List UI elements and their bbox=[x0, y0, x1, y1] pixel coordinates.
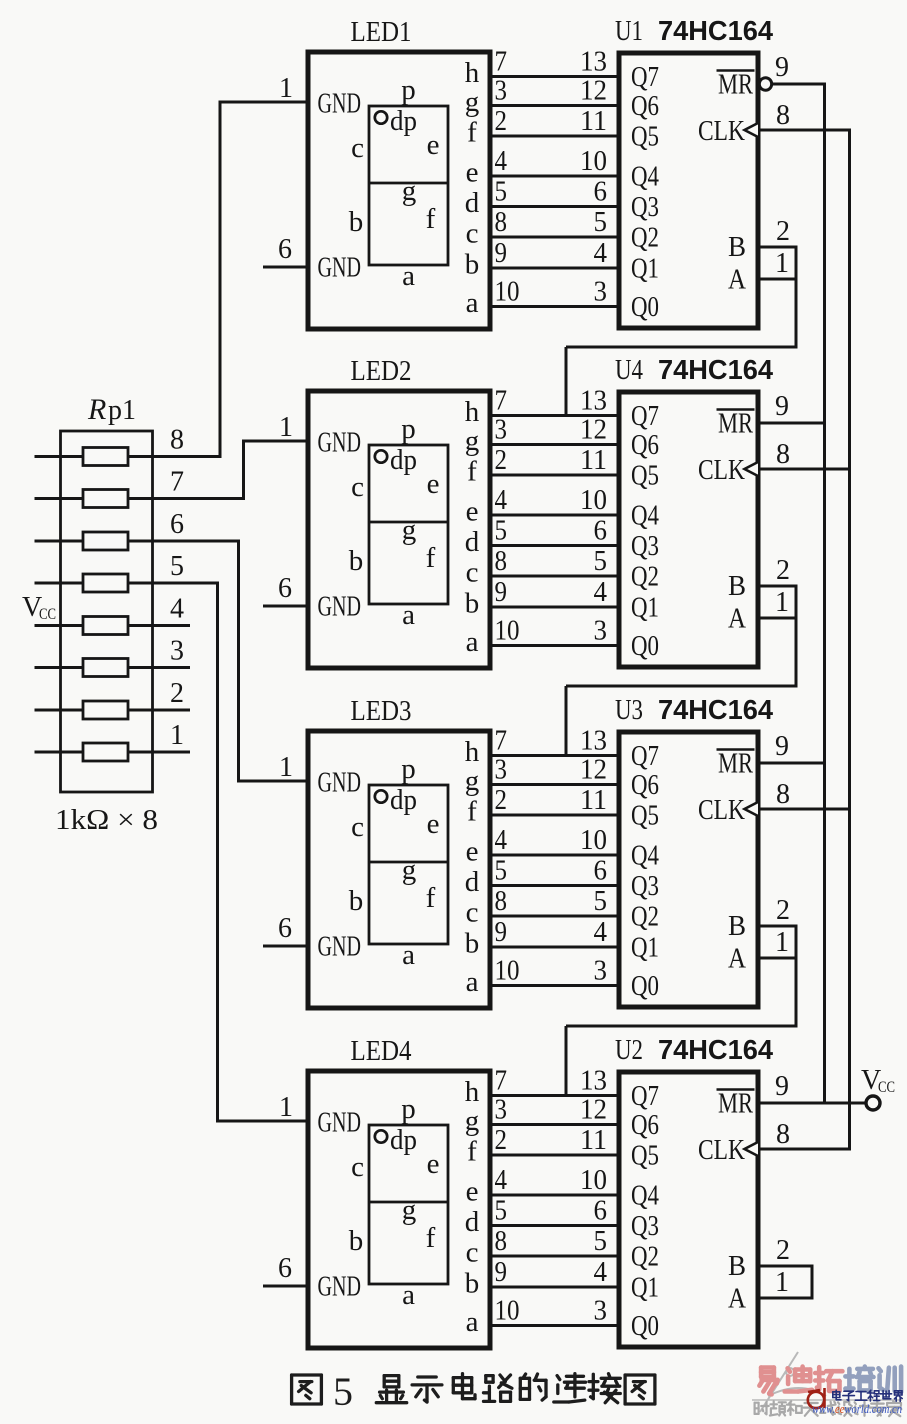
wire Vcc common to Rp1-7 bbox=[35, 497, 84, 500]
svg-text:b: b bbox=[349, 885, 364, 917]
resistor Rp1-5 bbox=[83, 574, 128, 592]
svg-text:13: 13 bbox=[580, 47, 607, 78]
U2 MR label (active-low overbar) bbox=[717, 1089, 755, 1120]
svg-text:4: 4 bbox=[495, 146, 508, 177]
stub wire Rp1-4 bbox=[128, 624, 190, 627]
svg-text:1: 1 bbox=[170, 720, 184, 751]
cascade wire U2.Q7 to U3 A/B bbox=[566, 958, 798, 1096]
watermark text 电 bbox=[833, 1390, 841, 1400]
svg-text:5: 5 bbox=[495, 1196, 508, 1227]
wire LED1.d to U1 pin 6 bbox=[490, 205, 619, 208]
svg-text:Q5: Q5 bbox=[631, 1141, 659, 1172]
LED display LED1 bbox=[308, 52, 490, 329]
svg-text:R: R bbox=[87, 393, 106, 426]
svg-text:2: 2 bbox=[495, 785, 508, 816]
svg-text:4: 4 bbox=[495, 825, 508, 856]
svg-text:f: f bbox=[426, 1222, 436, 1254]
U3 MR label (active-low overbar) bbox=[717, 749, 755, 780]
watermark text 培 bbox=[845, 1367, 873, 1391]
svg-text:Q0: Q0 bbox=[631, 292, 659, 323]
svg-text:Q5: Q5 bbox=[631, 801, 659, 832]
svg-text:A: A bbox=[728, 944, 747, 975]
LED2 decimal point circle bbox=[375, 450, 387, 462]
svg-text:5: 5 bbox=[594, 546, 608, 577]
caption text 的 bbox=[520, 1374, 546, 1400]
svg-text:1: 1 bbox=[775, 927, 789, 958]
wire LED1.h to U1 pin 13 bbox=[490, 75, 619, 78]
svg-text:Q6: Q6 bbox=[631, 430, 659, 461]
wire LED3.f to U3 pin 11 bbox=[490, 814, 619, 817]
svg-text:1: 1 bbox=[775, 587, 789, 618]
svg-text:LED2: LED2 bbox=[351, 356, 412, 387]
watermark eeworld logo mark bbox=[808, 1388, 825, 1408]
svg-text:Q3: Q3 bbox=[631, 1211, 659, 1242]
watermark text 线 bbox=[820, 1402, 836, 1415]
svg-text:U2: U2 bbox=[615, 1035, 643, 1066]
LED4 seven-segment outline bbox=[369, 1125, 448, 1284]
svg-text:Q6: Q6 bbox=[631, 1110, 659, 1141]
svg-text:1kΩ × 8: 1kΩ × 8 bbox=[55, 805, 158, 836]
svg-text:g: g bbox=[465, 765, 480, 797]
svg-text:dp: dp bbox=[390, 1124, 417, 1156]
svg-text:2: 2 bbox=[495, 106, 508, 137]
svg-text:5: 5 bbox=[333, 1369, 353, 1414]
svg-text:e: e bbox=[466, 157, 479, 189]
svg-text:f: f bbox=[467, 456, 477, 488]
svg-text:c: c bbox=[466, 1237, 479, 1269]
svg-text:Q7: Q7 bbox=[631, 741, 659, 772]
svg-text:4: 4 bbox=[594, 1257, 608, 1288]
svg-text:6: 6 bbox=[594, 1196, 608, 1227]
svg-text:a: a bbox=[466, 1306, 479, 1338]
svg-text:74HC164: 74HC164 bbox=[658, 1034, 774, 1065]
wire LED1 pin 6 stub bbox=[263, 266, 308, 269]
resistor Rp1-2 bbox=[83, 701, 128, 719]
svg-text:11: 11 bbox=[580, 445, 607, 476]
svg-text:8: 8 bbox=[495, 886, 508, 917]
svg-text:CLK: CLK bbox=[698, 1135, 745, 1166]
shift register U3 74HC164 bbox=[619, 732, 758, 1007]
svg-text:3: 3 bbox=[594, 277, 608, 308]
svg-text:h: h bbox=[465, 57, 480, 89]
svg-text:9: 9 bbox=[775, 731, 789, 762]
wire LED3 pin 6 stub bbox=[263, 945, 308, 948]
watermark text 射 bbox=[755, 1402, 769, 1414]
svg-text:5: 5 bbox=[594, 1226, 608, 1257]
watermark text 子 bbox=[843, 1391, 855, 1400]
svg-text:3: 3 bbox=[495, 1095, 508, 1126]
svg-text:10: 10 bbox=[580, 1165, 607, 1196]
svg-text:Q7: Q7 bbox=[631, 401, 659, 432]
svg-text:c: c bbox=[466, 218, 479, 250]
svg-text:dp: dp bbox=[390, 105, 417, 137]
wire LED4.g to U2 pin 12 bbox=[490, 1123, 619, 1126]
wire U4 MR to MR bus bbox=[758, 422, 826, 425]
svg-text:GND: GND bbox=[318, 768, 362, 799]
svg-text:5: 5 bbox=[495, 177, 508, 208]
svg-text:9: 9 bbox=[775, 52, 789, 83]
svg-text:2: 2 bbox=[776, 555, 790, 586]
wire LED1.e to U1 pin 10 bbox=[490, 175, 619, 178]
svg-text:4: 4 bbox=[594, 577, 608, 608]
U4 MR label (active-low overbar) bbox=[717, 409, 755, 440]
svg-text:MR: MR bbox=[718, 1089, 753, 1120]
svg-text:GND: GND bbox=[318, 428, 362, 459]
watermark text 频 bbox=[770, 1401, 786, 1415]
svg-text:5: 5 bbox=[594, 207, 608, 238]
svg-text:9: 9 bbox=[775, 391, 789, 422]
svg-text:Q0: Q0 bbox=[631, 631, 659, 662]
svg-text:Q2: Q2 bbox=[631, 1242, 659, 1273]
svg-text:4: 4 bbox=[594, 917, 608, 948]
svg-text:Q1: Q1 bbox=[631, 933, 659, 964]
wire Rp1-8 to LED1 pin1 bbox=[128, 102, 308, 458]
LED3 seven-segment outline bbox=[369, 785, 448, 944]
svg-text:a: a bbox=[466, 626, 479, 658]
svg-text:8: 8 bbox=[776, 100, 790, 131]
svg-text:g: g bbox=[402, 1194, 417, 1226]
svg-text:10: 10 bbox=[495, 277, 520, 308]
svg-text:74HC164: 74HC164 bbox=[658, 354, 774, 385]
svg-text:7: 7 bbox=[495, 47, 508, 78]
svg-text:3: 3 bbox=[170, 636, 184, 667]
svg-text:10: 10 bbox=[580, 485, 607, 516]
svg-text:3: 3 bbox=[495, 755, 508, 786]
svg-text:B: B bbox=[728, 911, 746, 942]
svg-text:9: 9 bbox=[495, 917, 508, 948]
svg-text:p: p bbox=[401, 1093, 416, 1125]
svg-text:e: e bbox=[466, 1176, 479, 1208]
svg-text:h: h bbox=[465, 736, 480, 768]
Vcc net label (top right) bbox=[861, 1065, 895, 1096]
caption text 显 bbox=[376, 1376, 406, 1403]
wire U4 CLK to CLK bus bbox=[758, 468, 851, 471]
wire LED1.g to U1 pin 12 bbox=[490, 104, 619, 107]
svg-text:Q2: Q2 bbox=[631, 223, 659, 254]
svg-text:GND: GND bbox=[318, 89, 362, 120]
stub wire Rp1-2 bbox=[128, 709, 190, 712]
svg-text:B: B bbox=[728, 571, 746, 602]
wire LED4 pin 6 stub bbox=[263, 1285, 308, 1288]
svg-text:f: f bbox=[467, 1136, 477, 1168]
Vcc terminal circle bbox=[866, 1096, 880, 1110]
watermark text 训 bbox=[879, 1367, 902, 1393]
wire LED4.a to U2 pin 3 bbox=[490, 1324, 619, 1327]
wire LED3.h to U3 pin 13 bbox=[490, 754, 619, 757]
svg-text:12: 12 bbox=[580, 1095, 607, 1126]
svg-text:A: A bbox=[728, 604, 747, 635]
wire U3 CLK to CLK bus bbox=[758, 808, 851, 811]
svg-text:9: 9 bbox=[775, 1071, 789, 1102]
U2 CLK edge-trigger arrowhead bbox=[745, 1142, 759, 1156]
U4 CLK edge-trigger arrowhead bbox=[745, 462, 759, 476]
svg-text:13: 13 bbox=[580, 1066, 607, 1097]
svg-text:B: B bbox=[728, 1251, 746, 1282]
wire Vcc common to Rp1-5 bbox=[35, 582, 84, 585]
svg-text:www.eeworld.com.cn: www.eeworld.com.cn bbox=[812, 1401, 902, 1416]
resistor Rp1-6 bbox=[83, 532, 128, 550]
watermark text 迪 bbox=[785, 1367, 812, 1392]
svg-text:e: e bbox=[427, 808, 440, 840]
wire LED3.c to U3 pin 5 bbox=[490, 915, 619, 918]
svg-text:6: 6 bbox=[278, 573, 292, 604]
svg-text:5: 5 bbox=[170, 551, 184, 582]
wire LED4.d to U2 pin 6 bbox=[490, 1224, 619, 1227]
svg-text:CC: CC bbox=[39, 606, 56, 623]
LED4 decimal point circle bbox=[375, 1130, 387, 1142]
svg-text:MR: MR bbox=[718, 749, 753, 780]
svg-text:MR: MR bbox=[718, 409, 753, 440]
wire LED3.e to U3 pin 10 bbox=[490, 854, 619, 857]
svg-text:e: e bbox=[427, 1148, 440, 1180]
label Rp1 bbox=[87, 393, 136, 426]
svg-text:p1: p1 bbox=[108, 394, 136, 426]
svg-text:3: 3 bbox=[594, 616, 608, 647]
svg-text:g: g bbox=[465, 425, 480, 457]
wire LED1.b to U1 pin 4 bbox=[490, 267, 619, 270]
svg-text:b: b bbox=[349, 1225, 364, 1257]
caption text 图 bbox=[625, 1375, 655, 1404]
svg-text:e: e bbox=[466, 496, 479, 528]
watermark text 程 bbox=[867, 1390, 879, 1401]
svg-text:4: 4 bbox=[495, 1165, 508, 1196]
CLK bus vertical wire bbox=[848, 130, 851, 1149]
svg-text:U3: U3 bbox=[615, 695, 643, 726]
watermark text 世 bbox=[880, 1391, 892, 1399]
wire U1 B/A tie (pins 1-2) bbox=[758, 246, 796, 281]
svg-text:3: 3 bbox=[594, 956, 608, 987]
svg-text:7: 7 bbox=[495, 386, 508, 417]
shift register U1 74HC164 bbox=[619, 53, 758, 328]
svg-text:2: 2 bbox=[776, 895, 790, 926]
svg-text:2: 2 bbox=[495, 445, 508, 476]
svg-text:d: d bbox=[465, 866, 480, 898]
svg-text:8: 8 bbox=[776, 1119, 790, 1150]
svg-text:a: a bbox=[466, 966, 479, 998]
svg-text:GND: GND bbox=[318, 253, 362, 284]
svg-text:U4: U4 bbox=[615, 355, 643, 386]
svg-text:6: 6 bbox=[278, 913, 292, 944]
caption text 连 bbox=[554, 1374, 586, 1402]
svg-text:e: e bbox=[466, 836, 479, 868]
svg-text:h: h bbox=[465, 1076, 480, 1108]
svg-text:b: b bbox=[349, 545, 364, 577]
MR bus vertical wire bbox=[823, 84, 826, 1103]
svg-text:d: d bbox=[465, 526, 480, 558]
svg-text:Q1: Q1 bbox=[631, 254, 659, 285]
wire U4 B/A tie (pins 1-2) bbox=[758, 585, 796, 620]
svg-text:6: 6 bbox=[594, 177, 608, 208]
svg-text:10: 10 bbox=[495, 1296, 520, 1327]
wire LED2.g to U4 pin 12 bbox=[490, 443, 619, 446]
svg-text:g: g bbox=[402, 854, 417, 886]
svg-text:Q1: Q1 bbox=[631, 1273, 659, 1304]
watermark text 拓 bbox=[815, 1367, 842, 1391]
svg-text:LED3: LED3 bbox=[351, 696, 412, 727]
svg-text:Q0: Q0 bbox=[631, 971, 659, 1002]
svg-text:GND: GND bbox=[318, 1108, 362, 1139]
wire LED3.b to U3 pin 4 bbox=[490, 946, 619, 949]
svg-text:A: A bbox=[728, 1284, 747, 1315]
svg-text:1: 1 bbox=[279, 73, 293, 104]
svg-text:10: 10 bbox=[495, 616, 520, 647]
svg-text:dp: dp bbox=[390, 784, 417, 816]
watermark text 界 bbox=[895, 1391, 903, 1402]
svg-text:Q0: Q0 bbox=[631, 1311, 659, 1342]
svg-text:3: 3 bbox=[495, 415, 508, 446]
svg-text:GND: GND bbox=[318, 592, 362, 623]
svg-text:7: 7 bbox=[495, 1066, 508, 1097]
svg-text:2: 2 bbox=[776, 216, 790, 247]
svg-text:8: 8 bbox=[495, 1226, 508, 1257]
wire LED4.h to U2 pin 13 bbox=[490, 1094, 619, 1097]
svg-text:f: f bbox=[426, 203, 436, 235]
svg-text:A: A bbox=[728, 265, 747, 296]
wire U3 MR to MR bus bbox=[758, 762, 826, 765]
svg-text:f: f bbox=[426, 882, 436, 914]
svg-text:7: 7 bbox=[495, 726, 508, 757]
watermark text 家 bbox=[887, 1401, 901, 1416]
svg-text:c: c bbox=[466, 897, 479, 929]
svg-text:Q4: Q4 bbox=[631, 841, 659, 872]
wire LED2.c to U4 pin 5 bbox=[490, 575, 619, 578]
caption text 电 bbox=[453, 1374, 475, 1399]
caption text 接 bbox=[589, 1374, 620, 1403]
stub wire Rp1-3 bbox=[128, 666, 190, 669]
svg-text:3: 3 bbox=[594, 1296, 608, 1327]
watermark text 和 bbox=[787, 1401, 802, 1415]
svg-text:4: 4 bbox=[594, 238, 608, 269]
svg-text:Q5: Q5 bbox=[631, 461, 659, 492]
wire U1 MR to MR bus bbox=[772, 83, 826, 86]
U3 CLK edge-trigger arrowhead bbox=[745, 802, 759, 816]
svg-text:Q6: Q6 bbox=[631, 770, 659, 801]
svg-text:7: 7 bbox=[170, 467, 184, 498]
svg-text:10: 10 bbox=[580, 825, 607, 856]
svg-text:4: 4 bbox=[170, 594, 184, 625]
svg-text:74HC164: 74HC164 bbox=[658, 15, 774, 46]
svg-text:6: 6 bbox=[278, 1253, 292, 1284]
svg-text:c: c bbox=[466, 557, 479, 589]
svg-text:10: 10 bbox=[495, 956, 520, 987]
svg-text:Q3: Q3 bbox=[631, 871, 659, 902]
svg-text:11: 11 bbox=[580, 1125, 607, 1156]
svg-text:12: 12 bbox=[580, 755, 607, 786]
wire LED4.b to U2 pin 4 bbox=[490, 1286, 619, 1289]
wire LED4.e to U2 pin 10 bbox=[490, 1194, 619, 1197]
LED display LED4 bbox=[308, 1071, 490, 1348]
svg-text:5: 5 bbox=[594, 886, 608, 917]
svg-text:Q1: Q1 bbox=[631, 593, 659, 624]
svg-text:CLK: CLK bbox=[698, 116, 745, 147]
svg-text:b: b bbox=[465, 1268, 480, 1300]
svg-text:8: 8 bbox=[776, 779, 790, 810]
svg-text:p: p bbox=[401, 753, 416, 785]
svg-text:p: p bbox=[401, 74, 416, 106]
svg-text:e: e bbox=[427, 468, 440, 500]
svg-text:a: a bbox=[466, 287, 479, 319]
caption text 路 bbox=[484, 1375, 512, 1401]
svg-text:6: 6 bbox=[278, 234, 292, 265]
wire LED2.a to U4 pin 3 bbox=[490, 644, 619, 647]
wire Vcc common to Rp1-2 bbox=[35, 709, 84, 712]
wire Vcc common to Rp1-6 bbox=[35, 540, 84, 543]
resistor Rp1-8 bbox=[83, 448, 128, 466]
svg-text:Q6: Q6 bbox=[631, 91, 659, 122]
svg-text:GND: GND bbox=[318, 1272, 362, 1303]
stub wire Rp1-1 bbox=[128, 751, 190, 754]
svg-text:1: 1 bbox=[279, 1092, 293, 1123]
svg-text:a: a bbox=[402, 599, 415, 631]
caption text 示 bbox=[412, 1377, 442, 1402]
svg-text:Q5: Q5 bbox=[631, 122, 659, 153]
svg-text:12: 12 bbox=[580, 76, 607, 107]
svg-text:Q7: Q7 bbox=[631, 1081, 659, 1112]
wire LED3.d to U3 pin 6 bbox=[490, 884, 619, 887]
LED display LED2 bbox=[308, 391, 490, 668]
svg-text:1: 1 bbox=[775, 248, 789, 279]
svg-text:d: d bbox=[465, 1206, 480, 1238]
wire U3 B/A tie (pins 1-2) bbox=[758, 925, 796, 960]
svg-text:g: g bbox=[402, 514, 417, 546]
LED2 seven-segment outline bbox=[369, 445, 448, 604]
svg-text:2: 2 bbox=[495, 1125, 508, 1156]
svg-text:f: f bbox=[467, 117, 477, 149]
wire LED4.f to U2 pin 11 bbox=[490, 1154, 619, 1157]
svg-text:f: f bbox=[467, 796, 477, 828]
svg-text:Q2: Q2 bbox=[631, 902, 659, 933]
resistor Rp1-7 bbox=[83, 490, 128, 508]
svg-text:f: f bbox=[426, 542, 436, 574]
svg-text:CC: CC bbox=[878, 1079, 895, 1096]
svg-text:d: d bbox=[465, 187, 480, 219]
svg-text:9: 9 bbox=[495, 1257, 508, 1288]
wire LED1.f to U1 pin 11 bbox=[490, 135, 619, 138]
svg-text:B: B bbox=[728, 232, 746, 263]
svg-text:Q2: Q2 bbox=[631, 562, 659, 593]
U1 CLK edge-trigger arrowhead bbox=[745, 123, 759, 137]
wire U1 CLK to CLK bus bbox=[758, 129, 851, 132]
svg-text:c: c bbox=[351, 471, 364, 503]
watermark text 专 bbox=[870, 1401, 885, 1416]
watermark text 易 bbox=[759, 1368, 777, 1395]
svg-text:2: 2 bbox=[170, 678, 184, 709]
svg-text:c: c bbox=[351, 811, 364, 843]
svg-text:Q7: Q7 bbox=[631, 62, 659, 93]
svg-text:g: g bbox=[465, 86, 480, 118]
svg-text:1: 1 bbox=[775, 1267, 789, 1298]
svg-text:U1: U1 bbox=[615, 16, 643, 47]
shift register U4 74HC164 bbox=[619, 392, 758, 667]
wire LED2.b to U4 pin 4 bbox=[490, 606, 619, 609]
resistor Rp1-3 bbox=[83, 659, 128, 677]
wire LED2 pin 6 stub bbox=[263, 605, 308, 608]
svg-text:CLK: CLK bbox=[698, 455, 745, 486]
svg-text:8: 8 bbox=[776, 439, 790, 470]
svg-text:a: a bbox=[402, 1279, 415, 1311]
svg-text:Q3: Q3 bbox=[631, 531, 659, 562]
wire Rp1-7 to LED2 pin1 bbox=[128, 441, 308, 500]
svg-text:13: 13 bbox=[580, 386, 607, 417]
caption text 图 bbox=[292, 1375, 322, 1404]
wire Vcc common to Rp1-4 bbox=[35, 624, 84, 627]
wire LED3.g to U3 pin 12 bbox=[490, 783, 619, 786]
svg-text:11: 11 bbox=[580, 106, 607, 137]
U1 MR inversion bubble bbox=[759, 78, 771, 90]
svg-text:Q4: Q4 bbox=[631, 162, 659, 193]
watermark swoosh sketch bbox=[752, 1352, 902, 1412]
LED1 seven-segment outline bbox=[369, 106, 448, 265]
